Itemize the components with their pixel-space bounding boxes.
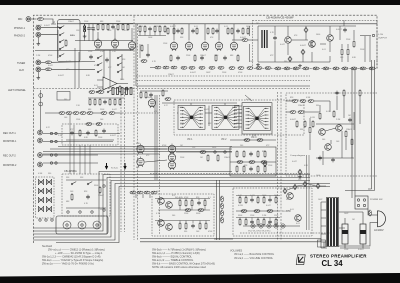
svg-text:100K: 100K <box>262 195 267 197</box>
inner border pair 2 <box>134 16 138 240</box>
svg-text:250K: 250K <box>222 72 227 74</box>
heater dashed box <box>62 174 110 216</box>
svg-text:330K: 330K <box>238 215 243 217</box>
mc bead <box>165 98 171 101</box>
switch contact s2 <box>59 33 64 36</box>
mains fuse <box>369 210 372 216</box>
nested corner bus 6 <box>56 187 330 243</box>
vb9 <box>96 123 102 126</box>
diag arrow <box>245 95 252 101</box>
rc wire b <box>286 111 320 113</box>
psu dashed box <box>253 20 378 68</box>
jack MONITOR-1 <box>38 153 43 158</box>
loud r2 <box>95 129 97 137</box>
switch contact s7 <box>97 70 102 73</box>
vbead2 <box>221 203 224 209</box>
switch contact s5 <box>97 56 102 59</box>
psu diode d2 <box>288 56 292 61</box>
fuse bead <box>242 39 248 42</box>
volume bead chain <box>45 112 160 126</box>
f row2 r2 <box>243 165 245 173</box>
psu transistor q1 <box>285 37 292 44</box>
tone wires <box>162 103 242 126</box>
lt bead <box>141 60 147 63</box>
lux logo <box>296 255 305 265</box>
svg-text:1M: 1M <box>352 219 355 221</box>
opamp bead 1 <box>89 91 95 94</box>
svg-text:0.0047: 0.0047 <box>240 37 246 39</box>
heater res <box>71 193 73 201</box>
sel res <box>65 39 67 47</box>
wire phono2 <box>41 34 58 36</box>
svg-text:ZW-av,1a ——— YA60 (1-76-D+: ZW-av,1a ——— YA60 (1-76-D+ P/90/90 3-0s) <box>42 263 94 266</box>
svg-text:0.047: 0.047 <box>48 65 53 67</box>
hb8 <box>218 66 224 69</box>
rc tr3 <box>325 144 332 151</box>
eq tube V2a <box>128 40 135 50</box>
filter cap C102 <box>360 224 366 244</box>
vertical bead chain <box>221 196 224 223</box>
svg-text:0.01: 0.01 <box>296 223 300 225</box>
selector solid box <box>58 20 81 62</box>
svg-text:220K: 220K <box>88 51 93 53</box>
svg-text:0.0047: 0.0047 <box>300 45 306 47</box>
op-amp triangle <box>103 77 117 90</box>
mr4 <box>103 100 107 105</box>
mr6 <box>114 98 116 106</box>
b1 tr1 <box>158 198 165 205</box>
mr3 <box>99 98 101 106</box>
psu ground 2 <box>298 64 302 67</box>
center vertical dashed <box>159 95 161 235</box>
plate r16 <box>173 27 175 35</box>
four wire bus mid <box>43 147 232 155</box>
switch contact s9 <box>117 63 122 66</box>
svg-text:560: 560 <box>92 30 95 32</box>
eq gnd <box>83 35 87 38</box>
lb3 <box>144 191 150 194</box>
terminal strip box <box>318 240 326 247</box>
svg-text:220K: 220K <box>116 21 121 23</box>
plate c15 <box>236 29 240 34</box>
switch cluster mid-left <box>96 90 112 93</box>
b2 bead m3 <box>267 210 273 213</box>
svg-text:0.047: 0.047 <box>292 161 297 163</box>
svg-text:PHONO-1: PHONO-1 <box>14 27 26 30</box>
cathode c22 <box>200 56 204 61</box>
eq dark r1 <box>84 24 86 35</box>
f row1 r2 <box>243 150 245 158</box>
psu choke <box>262 30 267 48</box>
svg-text:CB-435MA: CB-435MA <box>64 169 77 173</box>
hb9 <box>229 67 235 70</box>
f row1 r3 <box>257 150 259 158</box>
tube section frame <box>136 24 310 86</box>
svg-text:0.047: 0.047 <box>66 61 71 63</box>
dk r5 <box>130 88 132 95</box>
wire tuner <box>41 61 45 63</box>
heater sw1 <box>71 182 76 185</box>
svg-text:390: 390 <box>316 105 319 107</box>
cathode c23 <box>223 56 227 61</box>
svg-text:0.5M: 0.5M <box>306 97 311 99</box>
aux vertical left <box>40 90 42 131</box>
wire aux <box>41 68 45 70</box>
selector wire <box>57 26 60 58</box>
rc tube 3 <box>168 144 175 154</box>
rc bead b2 <box>298 111 304 114</box>
psu r32 <box>347 48 349 56</box>
terminal t5 <box>55 132 57 134</box>
svg-text:5600: 5600 <box>212 147 216 149</box>
mc c1 <box>149 93 153 98</box>
mc r1 <box>140 91 142 99</box>
plate r21e <box>247 27 249 35</box>
wire to connector <box>360 35 371 37</box>
tube V3b <box>185 41 192 51</box>
b2 tr1 <box>287 193 294 200</box>
plate r11 <box>139 25 141 33</box>
f bead1 <box>237 161 243 164</box>
jack REC OUT-2 <box>38 138 43 143</box>
b1 r8 <box>205 222 207 230</box>
b1 r1 <box>179 199 181 207</box>
rc bead a3 <box>308 100 314 103</box>
nested corner bus 2 <box>34 175 311 232</box>
svg-text:AC100V: AC100V <box>374 228 384 232</box>
svg-text:330K: 330K <box>100 209 105 211</box>
svg-text:0.01: 0.01 <box>94 85 98 87</box>
vchain wire <box>45 112 122 114</box>
opamp in wires <box>97 80 128 87</box>
b2r10 <box>275 218 277 226</box>
jack REC OUT-1 <box>38 130 43 135</box>
board2 dashed box <box>233 188 312 236</box>
rc r2 <box>312 120 314 128</box>
psu cap c31 <box>273 36 277 41</box>
rc r43 <box>343 89 345 97</box>
switch contacts col2 <box>97 56 122 73</box>
rc wire a <box>286 100 330 102</box>
svg-text:OUTPUT: OUTPUT <box>378 38 388 40</box>
svg-text:0.01: 0.01 <box>224 26 228 28</box>
switch contact s1 <box>59 26 64 29</box>
vb8 <box>86 123 92 126</box>
jack MIC <box>26 17 31 22</box>
wafer x2 <box>46 179 51 185</box>
wafer x8 <box>46 206 51 212</box>
switch m2 <box>107 90 112 93</box>
lb1 <box>130 191 136 194</box>
rc bead on wire <box>200 151 206 154</box>
dark resistor cluster <box>112 88 132 95</box>
mid cluster near divider <box>140 89 171 100</box>
star TREBLE L <box>212 105 239 129</box>
center vertical bus <box>155 95 157 180</box>
svg-text:12AU7: 12AU7 <box>298 104 304 107</box>
rc tube 5 <box>168 160 175 170</box>
plate r12 <box>144 25 146 33</box>
vertical bus top-left <box>75 48 122 88</box>
svg-text:0.0047: 0.0047 <box>290 119 296 121</box>
f row1 r1 <box>236 150 238 158</box>
switch contact s10 <box>117 70 122 73</box>
svg-text:CB-400MA/CB 436MF: CB-400MA/CB 436MF <box>266 15 294 19</box>
svg-text:VR-2a,b —— VOLUME CONTROL: VR-2a,b —— VOLUME CONTROL <box>234 257 274 260</box>
svg-text:2.2M: 2.2M <box>36 55 41 57</box>
plate r21 <box>242 27 244 35</box>
grid rail <box>138 31 166 35</box>
svg-text:390: 390 <box>64 99 67 101</box>
svg-text:0.22: 0.22 <box>46 127 50 129</box>
svg-text:470K: 470K <box>208 231 213 233</box>
aux pad resistor <box>46 68 52 71</box>
bus right link <box>214 238 233 240</box>
mc wire <box>140 90 168 92</box>
svg-text:0.0047: 0.0047 <box>110 135 116 137</box>
psw c3 <box>357 204 359 206</box>
svg-text:0.22: 0.22 <box>232 107 236 109</box>
svg-text:0.033: 0.033 <box>238 205 243 207</box>
rc dashed box <box>286 93 377 176</box>
b1 r7 <box>199 222 201 230</box>
svg-text:220K: 220K <box>186 55 191 57</box>
loud c1 <box>70 131 74 136</box>
vb5 <box>87 112 93 115</box>
long bottom wires <box>140 239 327 249</box>
heater bead chain <box>150 66 375 70</box>
B+ rail <box>57 23 377 25</box>
cathode c21 <box>176 56 180 61</box>
nested corner bus 5 <box>34 184 331 241</box>
svg-text:120K: 120K <box>163 43 168 45</box>
svg-text:AUX: AUX <box>19 69 24 72</box>
svg-text:100P: 100P <box>206 72 211 74</box>
wire phono1 <box>41 27 62 29</box>
opamp bead 2 <box>98 91 104 94</box>
b2 rails <box>236 196 280 220</box>
b2r7 <box>245 218 247 226</box>
rc r42 <box>333 110 335 118</box>
plate c13 <box>191 29 195 34</box>
psu diode d1 <box>301 49 305 54</box>
svg-text:0.22: 0.22 <box>238 195 242 197</box>
eq grid wires <box>95 28 133 50</box>
hb15 <box>284 67 290 70</box>
vertical pair center low <box>217 180 220 240</box>
balance box <box>242 103 272 134</box>
top row mid resistors <box>88 98 124 106</box>
svg-text:470K: 470K <box>48 55 53 57</box>
psu transistor q3 <box>327 35 334 42</box>
svg-text:12AU7: 12AU7 <box>98 194 104 197</box>
eq r7 <box>117 23 119 31</box>
jack PHONO1 <box>36 25 41 30</box>
wire mic in <box>31 18 37 20</box>
b1 r3 <box>191 199 193 207</box>
terminal t3 <box>50 154 52 156</box>
svg-text:560: 560 <box>172 215 175 217</box>
terminal t2 <box>50 140 52 142</box>
mains wires <box>339 209 372 246</box>
svg-text:470K: 470K <box>238 72 243 74</box>
b2 tr2 <box>295 215 302 222</box>
transformer taps <box>321 202 326 242</box>
vbead1 <box>221 196 224 202</box>
star BALANCE <box>244 106 271 130</box>
lt r1 <box>141 44 143 52</box>
rc tube 2 <box>137 157 144 167</box>
svg-text:100K: 100K <box>214 55 219 57</box>
svg-text:REC OUT-2: REC OUT-2 <box>3 155 16 158</box>
rc bead b1 <box>290 111 296 114</box>
svg-text:2.2M: 2.2M <box>262 215 267 217</box>
b2c4 <box>268 220 272 225</box>
svg-text:0.5M: 0.5M <box>38 173 43 175</box>
cathode r23 <box>194 54 196 62</box>
tube V5a <box>230 41 237 51</box>
psw c4 <box>363 204 365 206</box>
jack MONITOR-2 <box>38 162 43 167</box>
mc r3 <box>162 89 164 97</box>
vb6 <box>101 112 107 115</box>
f bead3 <box>261 161 267 164</box>
hb6 <box>199 66 205 69</box>
svg-text:390: 390 <box>284 61 287 63</box>
b2 row2 <box>239 218 277 226</box>
b1 c2 <box>191 224 195 229</box>
b2r8 <box>257 218 259 226</box>
tube section right border <box>249 26 251 62</box>
mr7 <box>119 98 121 106</box>
jack TUNER <box>36 60 41 65</box>
b2 bead m1 <box>241 210 247 213</box>
f mid wire <box>230 161 276 163</box>
tone dashed box <box>174 100 304 135</box>
tube V4a <box>201 41 208 51</box>
svg-text:12AU7: 12AU7 <box>224 156 230 159</box>
lb2 <box>137 191 143 194</box>
svg-text:0.1: 0.1 <box>208 197 211 199</box>
plate r21d <box>231 27 233 35</box>
feedback dashed 2 <box>136 80 310 82</box>
svg-text:390: 390 <box>256 23 259 25</box>
wafer term c2 <box>45 219 47 221</box>
lb4 <box>151 191 157 194</box>
wire aux 2 <box>52 68 96 70</box>
svg-text:250K: 250K <box>100 109 105 111</box>
transformer frame <box>327 198 339 247</box>
svg-text:0.01: 0.01 <box>322 49 326 51</box>
svg-text:0.5M: 0.5M <box>252 135 257 137</box>
plate r14 <box>159 25 161 33</box>
rc r3 <box>296 120 298 128</box>
mid link wire <box>230 139 276 141</box>
dk r1 <box>112 88 114 95</box>
rc r44 <box>359 89 361 97</box>
svg-text:250K: 250K <box>180 123 185 125</box>
svg-text:12AX7: 12AX7 <box>168 73 174 76</box>
svg-text:1M: 1M <box>180 145 183 147</box>
opamp res <box>119 85 121 93</box>
loud c3 <box>102 129 106 134</box>
feedback dashed 1 <box>136 75 310 77</box>
b1 r5 <box>179 222 181 230</box>
mc r2 <box>145 91 147 99</box>
svg-text:VOLUMES: VOLUMES <box>230 250 243 253</box>
b2c3 <box>250 220 254 225</box>
wafer x3 <box>38 188 43 194</box>
psu wires <box>258 20 370 62</box>
terminal t4 <box>50 162 52 164</box>
socket box <box>56 216 108 234</box>
svg-text:92.8 p/s: 92.8 p/s <box>111 168 118 170</box>
coupling cap cb <box>105 58 109 63</box>
psw c1 <box>357 199 359 201</box>
dk r4 <box>126 88 128 95</box>
dch3 <box>303 181 307 186</box>
svg-text:LEFT CHANNEL: LEFT CHANNEL <box>8 89 27 92</box>
wire mic pad out <box>44 19 57 24</box>
top black border bar <box>0 0 400 5</box>
heater cap <box>86 195 90 200</box>
svg-text:0.047: 0.047 <box>310 185 315 187</box>
svg-text:220K: 220K <box>184 213 189 215</box>
svg-text:L CH: L CH <box>378 34 383 36</box>
switch contact s6 <box>97 63 102 66</box>
hb3 <box>171 66 177 69</box>
pot p4 <box>274 224 278 228</box>
svg-text:NOTE: All resistors 1/2W unles: NOTE: All resistors 1/2W unless otherwis… <box>152 266 207 269</box>
link bead 2 <box>257 139 263 142</box>
vchain dashed <box>122 112 160 114</box>
svg-text:100K: 100K <box>316 175 321 177</box>
b1 rails <box>155 199 210 224</box>
opamp cap <box>125 87 129 92</box>
oamp r47 <box>309 126 311 134</box>
svg-text:0.22: 0.22 <box>164 105 168 107</box>
rc tube 4 <box>168 152 175 162</box>
rc tube wires <box>145 149 232 162</box>
psu c32 <box>343 28 347 33</box>
f bead2 <box>249 161 255 164</box>
hb14 <box>275 67 281 70</box>
b2r3 <box>257 196 259 204</box>
plate c12 <box>176 29 180 34</box>
oamp wires2 <box>310 118 352 158</box>
svg-text:REC OUT-1: REC OUT-1 <box>3 132 16 135</box>
filter cap C101 <box>342 224 348 244</box>
svg-text:1M: 1M <box>274 195 277 197</box>
lt wires <box>140 44 148 58</box>
psw c2 <box>363 199 365 201</box>
inner border pair left <box>121 89 125 233</box>
b1 tr3 <box>158 220 165 227</box>
hb21 <box>342 67 348 70</box>
volumes legend <box>230 250 275 260</box>
eq mid wire <box>75 31 133 41</box>
terminal t7 <box>55 154 57 156</box>
hb17 <box>303 67 309 70</box>
rc c41 <box>348 118 352 123</box>
pot p1 <box>251 224 255 228</box>
svg-text:0.047: 0.047 <box>112 109 117 111</box>
svg-text:1M: 1M <box>200 157 203 159</box>
svg-text:560: 560 <box>240 145 243 147</box>
junction node 2 <box>103 209 105 211</box>
svg-text:120K: 120K <box>274 215 279 217</box>
f row2 r1 <box>236 165 238 173</box>
